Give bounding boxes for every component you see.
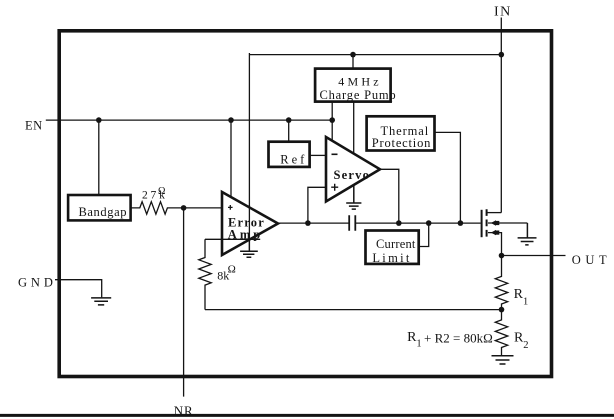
transistor Q1 drain stub to IN (488, 212, 502, 214)
resistor 27k (131, 202, 222, 214)
wire top supply rail (249, 54, 501, 56)
ground GND pin (91, 298, 111, 305)
node EN / bandgap (96, 117, 102, 123)
svg-text:Protection: Protection (372, 136, 431, 150)
node A bandgap/error amp/NR (181, 205, 187, 211)
resistor R2 (495, 310, 507, 356)
svg-text:Charge Pump: Charge Pump (320, 88, 397, 102)
wire EN to error amp top (230, 120, 232, 198)
op-amp servo (326, 137, 380, 202)
svg-text:Ω: Ω (158, 186, 165, 197)
wire 8k to error amp inverting input (205, 238, 260, 240)
svg-text:+ R2 = 80kΩ: + R2 = 80kΩ (424, 331, 493, 346)
svg-text:Current: Current (376, 237, 416, 251)
wire gate rail right of capacitor (355, 222, 480, 224)
node current limit / gate rail (426, 220, 432, 226)
ground below R2 (492, 356, 514, 364)
node EN / ref (286, 117, 292, 123)
svg-text:1: 1 (523, 297, 528, 308)
svg-text:OUT: OUT (572, 253, 612, 267)
error amp plus input marker (228, 205, 233, 210)
wire IN vertical (500, 18, 502, 213)
wire current limit to gate rail (418, 223, 429, 246)
charge pump block (315, 69, 391, 102)
capacitor C1 (349, 215, 355, 231)
svg-text:GND: GND (18, 276, 57, 290)
IC boundary box (59, 31, 551, 377)
wire NR (183, 208, 185, 397)
ref block (269, 142, 310, 167)
wire GND (55, 280, 102, 298)
wire servo plus input to gate rail (308, 187, 326, 223)
bottom page rule (0, 414, 614, 417)
wire left rail down to error-amp ground (248, 53, 250, 251)
node OUT (499, 253, 505, 259)
servo minus input marker (332, 153, 338, 155)
node servo plus / gate rail (305, 220, 311, 226)
svg-text:EN: EN (25, 119, 43, 133)
wire OUT (502, 255, 566, 257)
svg-text:2: 2 (523, 340, 528, 351)
node feedback (499, 307, 505, 313)
node EN / servo (329, 117, 335, 123)
error amp ground (240, 251, 258, 257)
svg-text:Limit: Limit (372, 251, 411, 265)
wire charge pump to servo (331, 102, 333, 141)
svg-text:Bandgap: Bandgap (78, 205, 127, 219)
wire feedback rail (205, 309, 502, 311)
transistor Q1 source stub (488, 233, 502, 256)
node EN / error amp (228, 117, 234, 123)
transistor Q1 channel segments (486, 209, 488, 236)
wire charge pump to servo top edge (353, 102, 355, 154)
servo ground (346, 185, 361, 209)
servo plus input marker (331, 184, 338, 191)
node top rail / IN (499, 52, 505, 58)
resistor R1 (495, 256, 507, 310)
transistor Q1 body arrow (491, 220, 496, 225)
ground body of Q1 (518, 223, 537, 245)
transistor Q1 source arrow (491, 230, 496, 235)
resistor 8k (199, 239, 211, 309)
svg-text:1: 1 (416, 339, 421, 350)
svg-text:Ref: Ref (280, 152, 307, 166)
wire top rail to charge pump (352, 55, 354, 69)
wire EN to bandgap (98, 120, 100, 194)
current limit block (366, 231, 419, 264)
node thermal / gate rail (458, 220, 464, 226)
transistor Q1 pass PMOS gate bar (481, 210, 483, 237)
wire left rail segment over error amp (248, 205, 250, 251)
transistor Q1 body stub (488, 222, 527, 224)
wire gate rail left of capacitor (277, 222, 349, 224)
svg-text:IN: IN (494, 5, 512, 20)
node servo output / gate rail (396, 220, 402, 226)
op-amp error amp (222, 192, 278, 255)
svg-text:Ω: Ω (228, 263, 236, 275)
wire EN rail (46, 119, 332, 121)
svg-text:4MHz: 4MHz (338, 75, 381, 89)
svg-text:Servo: Servo (334, 168, 371, 182)
node top rail / charge pump (350, 52, 356, 58)
thermal protection block (367, 116, 435, 150)
wire EN to ref box (288, 120, 290, 142)
bandgap block (68, 195, 131, 220)
wire ref to servo inverting input (310, 154, 326, 156)
wire thermal protection to gate rail (435, 132, 461, 223)
wire servo output (380, 169, 399, 223)
svg-text:NR: NR (174, 403, 194, 418)
